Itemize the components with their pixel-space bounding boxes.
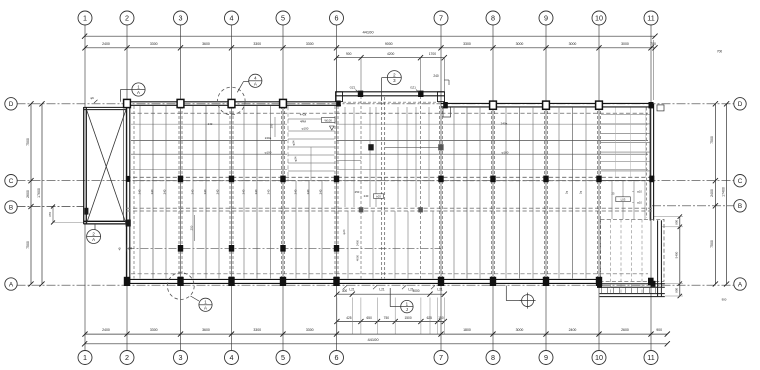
svg-text:7500: 7500 bbox=[26, 241, 30, 249]
svg-text:φ24: φ24 bbox=[294, 156, 298, 161]
svg-text:240: 240 bbox=[163, 189, 167, 194]
svg-text:17600: 17600 bbox=[37, 188, 41, 198]
svg-text:1: 1 bbox=[83, 353, 87, 362]
svg-text:7500: 7500 bbox=[26, 138, 30, 146]
svg-text:250: 250 bbox=[355, 190, 360, 194]
svg-text:2: 2 bbox=[125, 14, 129, 23]
svg-text:240a: 240a bbox=[501, 122, 508, 126]
svg-text:7: 7 bbox=[439, 353, 443, 362]
svg-text:3000: 3000 bbox=[621, 42, 629, 46]
svg-text:200: 200 bbox=[270, 123, 274, 128]
svg-text:44100: 44100 bbox=[362, 30, 374, 35]
svg-text:240: 240 bbox=[306, 189, 310, 194]
svg-text:2: 2 bbox=[125, 353, 129, 362]
svg-text:3300: 3300 bbox=[463, 42, 471, 46]
svg-text:3: 3 bbox=[179, 353, 183, 362]
svg-text:8: 8 bbox=[491, 14, 495, 23]
svg-text:φ10: φ10 bbox=[637, 189, 642, 193]
svg-text:3300: 3300 bbox=[150, 328, 158, 332]
svg-text:240: 240 bbox=[254, 189, 258, 194]
svg-text:3600: 3600 bbox=[202, 42, 210, 46]
svg-text:2400: 2400 bbox=[102, 42, 110, 46]
svg-text:1800: 1800 bbox=[463, 328, 471, 332]
svg-text:W100: W100 bbox=[325, 118, 333, 122]
svg-text:2φ: 2φ bbox=[565, 191, 569, 194]
svg-text:2φ: 2φ bbox=[579, 191, 583, 194]
svg-text:900: 900 bbox=[722, 298, 727, 302]
svg-text:625: 625 bbox=[427, 316, 433, 320]
svg-text:240: 240 bbox=[138, 189, 142, 194]
svg-text:5: 5 bbox=[281, 353, 285, 362]
svg-text:150: 150 bbox=[438, 316, 444, 320]
svg-text:24: 24 bbox=[128, 247, 132, 251]
svg-text:φ100: φ100 bbox=[302, 126, 309, 130]
svg-text:2400: 2400 bbox=[569, 328, 577, 332]
svg-text:J: J bbox=[406, 307, 408, 312]
svg-text:7500: 7500 bbox=[710, 240, 714, 248]
svg-text:GZ1: GZ1 bbox=[350, 86, 356, 90]
svg-text:1700: 1700 bbox=[429, 52, 437, 56]
svg-text:4PM: 4PM bbox=[300, 119, 307, 123]
svg-text:A: A bbox=[738, 281, 743, 288]
svg-text:240: 240 bbox=[208, 122, 213, 126]
svg-text:4: 4 bbox=[230, 353, 234, 362]
svg-text:b03: b03 bbox=[376, 194, 381, 198]
svg-text:2400: 2400 bbox=[102, 328, 110, 332]
svg-text:D: D bbox=[9, 101, 14, 108]
svg-text:D: D bbox=[738, 101, 743, 108]
svg-text:φ: φ bbox=[118, 247, 120, 251]
svg-text:900: 900 bbox=[675, 219, 679, 224]
svg-text:3300: 3300 bbox=[150, 42, 158, 46]
svg-text:900: 900 bbox=[656, 328, 662, 332]
svg-text:3300: 3300 bbox=[306, 42, 314, 46]
svg-text:1500: 1500 bbox=[405, 316, 412, 320]
svg-text:L21: L21 bbox=[349, 287, 355, 291]
svg-text:2600: 2600 bbox=[26, 190, 30, 198]
svg-text:3300: 3300 bbox=[306, 328, 314, 332]
svg-text:2400: 2400 bbox=[356, 239, 360, 246]
svg-text:9000: 9000 bbox=[385, 42, 393, 46]
svg-text:C: C bbox=[9, 178, 14, 185]
svg-text:GZ1: GZ1 bbox=[410, 86, 416, 90]
svg-text:240a: 240a bbox=[265, 136, 272, 140]
svg-text:8: 8 bbox=[491, 353, 495, 362]
svg-text:φ100: φ100 bbox=[265, 150, 272, 154]
svg-text:2400: 2400 bbox=[710, 189, 714, 197]
svg-text:5400: 5400 bbox=[675, 251, 679, 258]
svg-text:A: A bbox=[92, 237, 95, 242]
svg-text:7: 7 bbox=[439, 14, 443, 23]
svg-text:17400: 17400 bbox=[721, 187, 725, 197]
svg-text:A: A bbox=[9, 281, 14, 288]
svg-text:250: 250 bbox=[190, 225, 194, 230]
svg-text:B: B bbox=[738, 203, 742, 210]
svg-text:650: 650 bbox=[367, 316, 373, 320]
svg-text:900: 900 bbox=[346, 52, 352, 56]
svg-text:3000: 3000 bbox=[569, 42, 577, 46]
svg-text:240: 240 bbox=[433, 74, 439, 78]
svg-text:4: 4 bbox=[230, 14, 234, 23]
svg-text:φ6: φ6 bbox=[90, 96, 94, 100]
svg-text:A: A bbox=[204, 305, 207, 310]
svg-text:3000: 3000 bbox=[516, 42, 524, 46]
svg-text:7500: 7500 bbox=[710, 136, 714, 144]
svg-text:3300: 3300 bbox=[253, 328, 261, 332]
svg-text:4000: 4000 bbox=[356, 254, 360, 261]
svg-text:240: 240 bbox=[191, 189, 195, 194]
svg-text:11: 11 bbox=[647, 353, 654, 362]
svg-text:L21: L21 bbox=[437, 287, 443, 291]
svg-text:6: 6 bbox=[335, 14, 339, 23]
svg-text:750: 750 bbox=[384, 316, 390, 320]
svg-text:5: 5 bbox=[281, 14, 285, 23]
svg-text:425: 425 bbox=[346, 316, 352, 320]
svg-text:A: A bbox=[254, 81, 257, 86]
svg-text:900: 900 bbox=[675, 287, 679, 292]
svg-text:φ10: φ10 bbox=[637, 200, 642, 204]
svg-text:3000: 3000 bbox=[412, 289, 419, 293]
svg-text:700: 700 bbox=[650, 42, 656, 46]
svg-text:B: B bbox=[9, 204, 13, 211]
svg-text:L21: L21 bbox=[379, 287, 385, 291]
svg-text:240: 240 bbox=[364, 194, 369, 198]
svg-text:240: 240 bbox=[294, 189, 298, 194]
svg-text:6: 6 bbox=[335, 353, 339, 362]
svg-text:φ100: φ100 bbox=[502, 151, 509, 155]
svg-text:11: 11 bbox=[647, 14, 654, 23]
svg-text:4×2a: 4×2a bbox=[300, 112, 307, 116]
svg-text:240: 240 bbox=[319, 189, 323, 194]
svg-text:1: 1 bbox=[83, 14, 87, 23]
svg-text:240: 240 bbox=[242, 189, 246, 194]
svg-text:φ24: φ24 bbox=[342, 229, 346, 234]
svg-text:240: 240 bbox=[203, 189, 207, 194]
svg-text:4200: 4200 bbox=[387, 52, 395, 56]
svg-text:44100: 44100 bbox=[367, 337, 379, 342]
svg-text:10: 10 bbox=[595, 353, 603, 362]
svg-text:2600: 2600 bbox=[621, 328, 629, 332]
svg-text:9: 9 bbox=[544, 14, 548, 23]
svg-text:C: C bbox=[738, 178, 743, 185]
svg-text:3600: 3600 bbox=[202, 328, 210, 332]
svg-text:700: 700 bbox=[717, 50, 723, 54]
svg-text:9: 9 bbox=[544, 353, 548, 362]
svg-text:240: 240 bbox=[216, 189, 220, 194]
svg-text:A: A bbox=[137, 90, 140, 95]
svg-text:L03: L03 bbox=[621, 198, 626, 202]
svg-text:3: 3 bbox=[179, 14, 183, 23]
svg-text:370: 370 bbox=[48, 212, 52, 217]
svg-text:3300: 3300 bbox=[253, 42, 261, 46]
svg-text:300: 300 bbox=[342, 289, 348, 293]
svg-text:240: 240 bbox=[150, 189, 154, 194]
svg-text:3000: 3000 bbox=[516, 328, 524, 332]
svg-text:φ24: φ24 bbox=[292, 140, 296, 145]
svg-text:10: 10 bbox=[595, 14, 603, 23]
svg-text:240: 240 bbox=[267, 189, 271, 194]
